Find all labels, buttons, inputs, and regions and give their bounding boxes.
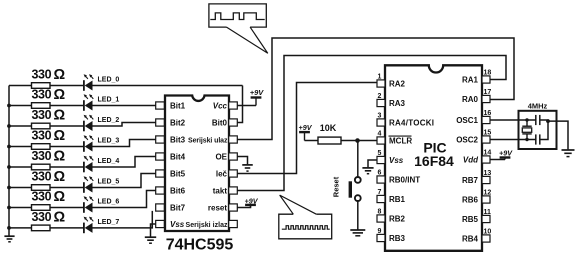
wire Vcc to +9V — [237, 105, 256, 107]
junction node bus/row3 — [7, 145, 11, 149]
wire bus to resistor R6 — [9, 207, 32, 209]
svg-text:15: 15 — [484, 130, 492, 137]
+9V supply (74HC595 Vcc) — [250, 88, 265, 105]
pin takt (74HC595 right) — [229, 187, 238, 194]
pin 18 RA1 (PIC right) — [482, 76, 490, 83]
LED LED_1 — [84, 94, 94, 111]
svg-text:RA0: RA0 — [462, 95, 479, 104]
ground (74HC595 Vss) — [145, 237, 156, 243]
svg-text:4: 4 — [378, 131, 382, 138]
svg-text:3: 3 — [378, 113, 382, 120]
svg-text:+9V: +9V — [499, 148, 513, 157]
svg-text:Bit5: Bit5 — [170, 169, 186, 178]
junction node bus/row4 — [7, 165, 11, 169]
wire resistor R4 to LED_4 — [50, 166, 85, 168]
svg-text:Ω: Ω — [54, 149, 66, 165]
wire bus to resistor R3 — [9, 146, 32, 148]
svg-text:4MHz: 4MHz — [528, 101, 548, 110]
value label 330 ohm for R1 — [32, 87, 66, 103]
wire resistor R6 to LED_6 — [50, 207, 85, 209]
wire OSC1 to C1 — [490, 119, 536, 121]
wire LED_0 toward Bit0 riser — [93, 85, 243, 87]
wire LED_2 to 74HC595 Bit2 — [93, 123, 156, 127]
wire resistor R7 to LED_7 — [50, 227, 85, 229]
wire OE to ground — [237, 157, 247, 165]
svg-text:Bit6: Bit6 — [170, 186, 186, 195]
svg-text:330: 330 — [32, 108, 52, 122]
wire resistor R3 to LED_3 — [50, 146, 85, 148]
svg-text:RA3: RA3 — [389, 99, 406, 108]
svg-text:RA2: RA2 — [389, 80, 406, 89]
LED LED_0 — [84, 74, 94, 91]
wire bus to resistor R2 — [9, 125, 32, 127]
svg-text:Vdd: Vdd — [463, 156, 479, 165]
svg-text:8: 8 — [378, 209, 382, 216]
pin 17 RA0 (PIC right) — [482, 95, 490, 102]
svg-text:10: 10 — [484, 229, 492, 236]
svg-text:Ω: Ω — [54, 210, 66, 226]
pin Bit5 (74HC595 left) — [156, 170, 165, 177]
IC U2 PIC 16F84 body — [385, 65, 482, 251]
wire Vss(PIC) to ground — [368, 160, 377, 167]
svg-text:10K: 10K — [320, 123, 337, 133]
resistor R6 (330 ohm) — [32, 205, 51, 211]
pin Vcc (74HC595 right) — [229, 102, 238, 109]
pin 7 RB1 (PIC left) — [377, 195, 385, 202]
pin 2 RA3 (PIC left) — [377, 99, 385, 106]
pin Bit7 (74HC595 left) — [156, 204, 165, 211]
LED LED_3 — [84, 135, 94, 152]
junction node bus/row1 — [7, 104, 11, 108]
wire net LATCH: lec to RA2 — [237, 83, 377, 174]
wire LED_3 to 74HC595 Bit3 — [93, 140, 156, 147]
wire +9V to R9 — [305, 140, 319, 142]
svg-text:takt: takt — [213, 186, 228, 195]
svg-text:+9V: +9V — [245, 196, 259, 205]
svg-text:RB7: RB7 — [462, 176, 479, 185]
IC U1 74HC595 body — [165, 96, 229, 232]
pin OE (74HC595 right) — [229, 153, 238, 160]
svg-text:330: 330 — [32, 149, 52, 163]
pin Serijski izlaz (74HC595 right) — [229, 220, 238, 227]
svg-text:RA1: RA1 — [462, 76, 479, 85]
pushbutton S1 Reset — [350, 177, 360, 201]
svg-text:+9V: +9V — [250, 88, 265, 97]
pin 1 RA2 (PIC left) — [377, 80, 385, 87]
pin 8 RB2 (PIC left) — [377, 215, 385, 222]
wire Vss(595) to ground — [151, 224, 156, 237]
svg-text:Ω: Ω — [54, 189, 66, 205]
pin Vss (74HC595 left) — [156, 220, 165, 227]
svg-text:RA4/TOCKI: RA4/TOCKI — [389, 119, 434, 128]
LED LED_2 — [84, 115, 94, 132]
svg-text:LED_7: LED_7 — [98, 219, 120, 226]
junction node crystal bottom — [525, 138, 528, 141]
svg-text:Ω: Ω — [54, 87, 66, 103]
wire Bit0 riser to LED_0 row — [237, 86, 242, 123]
svg-text:330: 330 — [32, 190, 52, 204]
value label 330 ohm for R3 — [32, 128, 66, 144]
svg-text:+9V: +9V — [299, 123, 313, 132]
svg-text:LED_5: LED_5 — [98, 179, 120, 186]
value label 330 ohm for R5 — [32, 169, 66, 185]
svg-text:RB3: RB3 — [389, 234, 406, 243]
wire LED_7 to 74HC595 Bit7 — [93, 211, 153, 228]
pin leč (74HC595 right) — [229, 170, 238, 177]
pin Bit1 (74HC595 left) — [156, 102, 165, 109]
svg-text:reset: reset — [208, 203, 227, 212]
svg-text:Ω: Ω — [54, 169, 66, 185]
callout balloon: clock waveform — [279, 195, 332, 239]
svg-text:Serijski izlaz: Serijski izlaz — [186, 222, 229, 229]
svg-text:OSC1: OSC1 — [456, 116, 478, 125]
junction node crystal top — [525, 118, 528, 121]
ground (PIC Vss) — [362, 168, 373, 174]
svg-text:Ω: Ω — [54, 67, 66, 83]
wire junction down to pushbutton S1 — [357, 141, 359, 178]
svg-text:9: 9 — [378, 228, 382, 235]
pin reset (74HC595 right) — [229, 204, 238, 211]
svg-text:11: 11 — [484, 209, 492, 216]
junction node MCLR/pushbutton — [355, 138, 360, 143]
crystal X1 — [522, 120, 531, 140]
svg-text:330: 330 — [32, 129, 52, 143]
svg-text:Ω: Ω — [54, 108, 66, 124]
svg-text:Bit1: Bit1 — [170, 101, 186, 110]
wire caps to common node — [540, 120, 548, 140]
pin 4 MCLR (PIC left) — [377, 137, 385, 144]
pin 13 RB7 (PIC right) — [482, 176, 490, 183]
ground (crystal) — [562, 150, 575, 157]
LED LED_5 — [84, 176, 94, 193]
svg-text:OSC2: OSC2 — [456, 136, 478, 145]
svg-text:14: 14 — [484, 150, 492, 157]
svg-text:Ω: Ω — [54, 128, 66, 144]
junction node bus/row2 — [7, 124, 11, 128]
svg-text:Bit2: Bit2 — [170, 118, 186, 127]
pin 9 RB3 (PIC left) — [377, 234, 385, 241]
svg-text:7: 7 — [378, 189, 382, 196]
pin 11 RB5 (PIC right) — [482, 215, 490, 222]
svg-text:LED_6: LED_6 — [98, 199, 120, 206]
svg-text:leč: leč — [216, 169, 228, 178]
resistor R3 (330 ohm) — [32, 144, 51, 150]
svg-text:330: 330 — [32, 210, 52, 224]
wire LED_4 to 74HC595 Bit4 — [93, 157, 156, 168]
wire net CLK: takt to RA1 — [237, 56, 506, 191]
wire OSC2 to C2 — [490, 139, 536, 141]
junction node bus/row5 — [7, 186, 11, 190]
LED LED_6 — [84, 196, 94, 213]
wire LED_6 to 74HC595 Bit6 — [93, 191, 156, 208]
capacitor C2 — [536, 134, 540, 144]
svg-text:330: 330 — [32, 170, 52, 184]
svg-text:LED_0: LED_0 — [98, 77, 120, 84]
ground (pushbutton) — [350, 230, 365, 236]
resistor R7 (330 ohm) — [32, 225, 51, 231]
svg-text:MCLR: MCLR — [389, 137, 412, 146]
svg-text:16: 16 — [484, 110, 492, 117]
value label 330 ohm for R2 — [32, 108, 66, 124]
svg-text:RB4: RB4 — [462, 235, 479, 244]
callout balloon: shift-register output waveform — [209, 4, 268, 53]
pin Bit6 (74HC595 left) — [156, 187, 165, 194]
resistor R2 (330 ohm) — [32, 123, 51, 129]
wire resistor R2 to LED_2 — [50, 125, 85, 127]
svg-text:13: 13 — [484, 170, 492, 177]
svg-text:330: 330 — [32, 68, 52, 82]
wire R9 to MCLR pin — [341, 140, 377, 142]
ground (bus bottom) — [4, 236, 14, 242]
junction node caps/ground — [546, 119, 550, 123]
pin 3 RA4/TOCKI (PIC left) — [377, 119, 385, 126]
wire bus to resistor R0 — [9, 85, 32, 87]
wire Vdd to +9V — [490, 159, 505, 161]
svg-text:RB6: RB6 — [462, 196, 479, 205]
value label 330 ohm for R6 — [32, 189, 66, 205]
pin Bit2 (74HC595 left) — [156, 119, 165, 126]
pin 6 RB0/INT (PIC left) — [377, 176, 385, 183]
wire reset to +9V — [237, 205, 250, 208]
svg-text:RB0/INT: RB0/INT — [389, 176, 420, 185]
svg-text:Bit0: Bit0 — [212, 118, 228, 127]
svg-text:5: 5 — [378, 150, 382, 157]
svg-text:Bit7: Bit7 — [170, 203, 186, 212]
svg-text:RB2: RB2 — [389, 215, 406, 224]
svg-text:17: 17 — [484, 89, 492, 96]
value label 330 ohm for R7 — [32, 210, 66, 226]
pin Bit0 (74HC595 right) — [229, 119, 238, 126]
svg-text:Reset: Reset — [332, 176, 341, 197]
wire bus to resistor R7 — [9, 227, 32, 229]
resistor R4 (330 ohm) — [32, 164, 51, 170]
capacitor C1 — [536, 115, 540, 125]
pin 14 Vdd (PIC right) — [482, 156, 490, 163]
wire LED_1 to 74HC595 Bit1 — [93, 105, 156, 107]
pin 5 Vss (PIC left) — [377, 156, 385, 163]
svg-text:1: 1 — [378, 74, 382, 81]
pin Bit4 (74HC595 left) — [156, 153, 165, 160]
resistor R9 (10K pullup) — [318, 137, 341, 144]
LED LED_4 — [84, 156, 94, 173]
wire net SER: Serijski ulaz to RA0 — [237, 38, 514, 140]
wire resistor R5 to LED_5 — [50, 187, 85, 189]
svg-text:2: 2 — [378, 93, 382, 100]
wire bus to resistor R4 — [9, 166, 32, 168]
pin 15 OSC2 (PIC right) — [482, 136, 490, 143]
svg-text:330: 330 — [32, 88, 52, 102]
ground bus wire (left vertical) — [8, 86, 10, 236]
pin Serijski ulaz (74HC595 right) — [229, 136, 238, 143]
svg-text:RB1: RB1 — [389, 195, 406, 204]
wire LED_5 to 74HC595 Bit5 — [93, 174, 156, 188]
+9V supply (MCLR pullup) — [299, 123, 313, 141]
resistor R1 (330 ohm) — [32, 103, 51, 109]
value label 330 ohm for R4 — [32, 149, 66, 165]
svg-text:LED_2: LED_2 — [98, 117, 120, 124]
svg-text:Serijski ulaz: Serijski ulaz — [188, 137, 228, 144]
pin Bit3 (74HC595 left) — [156, 136, 165, 143]
svg-text:LED_1: LED_1 — [98, 97, 120, 104]
svg-text:Vcc: Vcc — [213, 101, 228, 110]
svg-text:Bit4: Bit4 — [170, 152, 186, 161]
resistor R0 (330 ohm) — [32, 83, 51, 89]
svg-text:RB5: RB5 — [462, 215, 479, 224]
wire bus to resistor R5 — [9, 187, 32, 189]
pin 10 RB4 (PIC right) — [482, 235, 490, 242]
+9V supply (PIC Vdd) — [499, 148, 513, 159]
wire crystal common to ground — [548, 121, 568, 149]
pin 16 OSC1 (PIC right) — [482, 116, 490, 123]
wire resistor R0 to LED_0 — [50, 85, 85, 87]
svg-text:LED_3: LED_3 — [98, 138, 120, 145]
svg-text:74HC595: 74HC595 — [166, 237, 234, 254]
junction node bus/row7 — [7, 226, 11, 230]
value label 330 ohm for R0 — [32, 67, 66, 83]
svg-text:6: 6 — [378, 170, 382, 177]
wire resistor R1 to LED_1 — [50, 105, 85, 107]
ground (OE) — [242, 165, 253, 171]
svg-text:OE: OE — [215, 152, 227, 161]
svg-text:Vss: Vss — [170, 220, 185, 229]
svg-text:16F84: 16F84 — [414, 153, 454, 169]
pin 12 RB6 (PIC right) — [482, 196, 490, 203]
svg-text:18: 18 — [484, 70, 492, 77]
LED LED_7 — [84, 217, 94, 234]
+9V supply (74HC595 reset) — [245, 196, 259, 207]
junction node bus/row6 — [7, 206, 11, 210]
wire pushbutton to ground — [357, 201, 359, 230]
wire bus to resistor R1 — [9, 105, 32, 107]
svg-text:LED_4: LED_4 — [98, 158, 120, 165]
svg-text:Vss: Vss — [389, 156, 404, 165]
crystal module box — [519, 111, 557, 149]
svg-text:Bit3: Bit3 — [170, 135, 186, 144]
resistor R5 (330 ohm) — [32, 185, 51, 191]
svg-text:12: 12 — [484, 190, 492, 197]
